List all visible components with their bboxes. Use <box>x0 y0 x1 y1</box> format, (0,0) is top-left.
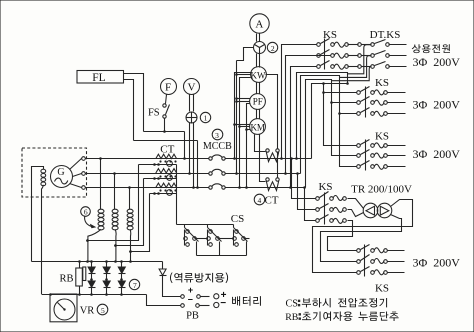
selector CS group 3 <box>233 225 235 228</box>
wire v sel b <box>189 123 191 174</box>
wire F to FS <box>166 95 167 104</box>
knife switch KS bank3 <box>357 144 361 148</box>
svg-text:CT: CT <box>160 143 174 155</box>
svg-text:KS: KS <box>318 181 332 193</box>
wire bus to PB minus <box>147 295 181 306</box>
svg-text:3Φ 200V: 3Φ 200V <box>413 98 461 112</box>
svg-text:3Φ 200V: 3Φ 200V <box>413 55 461 69</box>
resistor RB <box>76 268 83 286</box>
meter PF <box>250 94 266 110</box>
feeder to KS1 row2 <box>286 56 331 174</box>
wire bundle b2 <box>236 61 238 174</box>
rectifier diode leg 3 <box>121 262 123 268</box>
label 7 circled <box>129 279 139 289</box>
wire dtks drop2 <box>340 56 371 78</box>
wire bundle b4 <box>247 104 251 188</box>
generator G <box>51 166 73 188</box>
nest line n1 <box>297 73 348 159</box>
wire FL lower <box>124 80 134 141</box>
phase line 3 right <box>226 187 306 189</box>
wire dtks drop1 <box>348 45 371 74</box>
svg-text:V: V <box>188 82 196 94</box>
label yeokryu bangjiyong <box>170 272 228 283</box>
svg-text:G: G <box>57 167 64 178</box>
wire KS4 r3 down <box>328 221 357 251</box>
label 1 circled <box>200 112 210 122</box>
wire TR out lower <box>321 215 402 262</box>
svg-text:CT: CT <box>264 194 278 206</box>
svg-text:FL: FL <box>92 72 105 84</box>
wire h2 <box>134 140 198 142</box>
feeder to TR KS row1 <box>292 159 316 199</box>
wire CS top bus <box>177 224 234 226</box>
wire h1 <box>144 131 185 133</box>
battery terminal plus <box>214 294 219 299</box>
svg-text:A: A <box>255 19 263 31</box>
feeder to TR KS row2 <box>298 174 316 210</box>
exciter coil 2 <box>112 209 118 213</box>
svg-text:KS: KS <box>375 131 389 143</box>
wire FS down <box>164 119 166 132</box>
fuse switch FS <box>163 104 166 107</box>
label battery <box>232 296 261 306</box>
label commercial power <box>412 44 450 53</box>
phase line 1 left <box>86 158 209 160</box>
selector CS group 2 <box>207 225 209 228</box>
push button PB row2 <box>181 304 185 308</box>
wire KS4 r2 to TR <box>348 210 364 217</box>
knife switch KS bank1 <box>317 43 321 47</box>
field winding <box>41 169 46 173</box>
wire selector box left <box>237 48 254 61</box>
wire bundle b3 <box>240 78 251 188</box>
svg-text:CS: CS <box>286 299 299 310</box>
breaker MCCB pole 1 <box>209 157 212 160</box>
wire dc bus bottom <box>42 294 147 296</box>
wire CT2 secondary riser <box>116 179 144 246</box>
wire v sel d <box>197 141 199 188</box>
svg-text:KS: KS <box>323 29 337 41</box>
wire dtks drop3 <box>332 67 371 81</box>
wire dc bus top <box>32 261 163 263</box>
wire V to selector <box>189 95 191 112</box>
ammeter selector switch <box>254 42 266 54</box>
svg-text:KS: KS <box>375 77 389 89</box>
nest line n2 <box>301 76 357 174</box>
phase line 2 right <box>226 173 301 175</box>
wire field top <box>32 167 44 262</box>
exciter coil 1 <box>98 209 104 213</box>
feeder to TR KS row3 <box>305 188 316 221</box>
svg-text:CS: CS <box>231 213 244 225</box>
svg-text:PB: PB <box>186 311 199 322</box>
knife switch KS bank5 <box>357 249 361 253</box>
nest line n3 <box>306 80 357 188</box>
breaker MCCB pole 2 <box>209 172 212 175</box>
svg-text:3Φ 200V: 3Φ 200V <box>413 147 461 161</box>
rectifier diode leg 2 <box>106 262 108 268</box>
freq meter F <box>161 79 177 95</box>
wire CT3 secondary riser <box>131 194 150 252</box>
svg-text:4: 4 <box>258 196 262 205</box>
svg-text:F: F <box>165 82 171 94</box>
svg-text:5: 5 <box>101 306 105 315</box>
exciter coil 3 <box>127 209 133 213</box>
phase line 1 right <box>226 158 312 160</box>
wire selector to KW <box>256 54 258 68</box>
rectifier diode leg 1 <box>91 262 93 268</box>
wire CS mid links <box>195 238 207 240</box>
breaker MCCB pole 3 <box>209 186 212 189</box>
feeder to KS1 row1 <box>282 45 317 159</box>
wire coil1 drop <box>88 229 101 261</box>
wire bundle b1 <box>235 73 251 159</box>
svg-text:3: 3 <box>215 131 219 140</box>
wire field bottom <box>42 185 44 294</box>
blocking diode <box>162 262 164 270</box>
wire KW to PF <box>256 83 258 94</box>
svg-text:KM: KM <box>250 122 265 132</box>
current transformer CT2 <box>156 169 177 173</box>
rheostat VR box <box>50 294 77 322</box>
svg-text:RB: RB <box>59 273 73 284</box>
label 6 circled <box>81 207 91 217</box>
meter KM <box>250 119 266 135</box>
meter KW <box>251 67 267 83</box>
transformer TR <box>363 203 378 218</box>
svg-text:2: 2 <box>271 44 275 53</box>
metering CT W1 <box>266 149 269 152</box>
knife switch KS bank4 <box>316 197 320 201</box>
knife switch KS bank2 <box>357 91 361 95</box>
phase line 2 left <box>86 173 209 175</box>
rheostat VR <box>54 299 75 320</box>
selector switch DT.KS <box>371 43 375 47</box>
wire FL upper <box>124 74 144 132</box>
wire TR out upper <box>313 200 413 273</box>
svg-text:TR 200/100V: TR 200/100V <box>351 183 412 195</box>
battery terminal minus <box>214 302 219 307</box>
svg-text:3Φ 200V: 3Φ 200V <box>413 256 461 270</box>
wire KM to W2 left <box>260 135 266 182</box>
voltmeter V <box>184 79 200 95</box>
svg-text:MCCB: MCCB <box>203 141 232 152</box>
push button PB row1 <box>181 295 185 299</box>
svg-text:KW: KW <box>251 70 266 80</box>
wire CT1 secondary riser <box>88 165 139 241</box>
wire coil2 drop <box>115 229 116 261</box>
label 4 circled <box>254 194 265 205</box>
svg-text:−: − <box>220 298 226 309</box>
svg-text:6: 6 <box>84 208 88 217</box>
generator terminals <box>82 157 86 161</box>
svg-text:RB: RB <box>285 312 299 323</box>
svg-text:−: − <box>188 295 193 305</box>
selector CS group 1 <box>184 225 186 228</box>
label 3 circled <box>212 129 223 140</box>
svg-text:PF: PF <box>253 97 263 107</box>
wire PF to KM <box>256 110 258 119</box>
wire CT chain down to CS <box>176 165 178 225</box>
wire v sel c <box>193 123 195 188</box>
ammeter A <box>250 14 269 33</box>
wire W1 right to W2 right <box>277 152 279 178</box>
label 5 circled <box>97 304 108 315</box>
voltmeter selector 1 <box>186 112 197 123</box>
label 2 circled <box>267 42 277 52</box>
svg-text:VR: VR <box>80 305 95 316</box>
svg-text:KS: KS <box>375 283 389 295</box>
current transformer CT1 <box>156 154 177 158</box>
feeder to KS1 row3 <box>291 67 317 188</box>
wire KS4 r1 to TR <box>348 199 364 209</box>
nest line n4 <box>312 84 357 159</box>
phase line 3 left <box>86 187 209 189</box>
wire coil3 drop <box>129 229 132 261</box>
current transformer CT3 <box>156 183 177 187</box>
wire v sel a <box>184 132 186 159</box>
wire CS bottom bus <box>197 255 247 257</box>
svg-text:FS: FS <box>148 107 160 118</box>
filter FL box <box>77 71 124 84</box>
wire KM to W1 left <box>255 135 266 152</box>
svg-text:7: 7 <box>133 281 137 290</box>
wire A to selector 2 <box>256 34 258 42</box>
metering CT W2 <box>266 178 269 181</box>
wire KW to W1 right <box>266 75 278 149</box>
generator dashed enclosure <box>22 148 87 197</box>
svg-text:1: 1 <box>204 114 208 123</box>
